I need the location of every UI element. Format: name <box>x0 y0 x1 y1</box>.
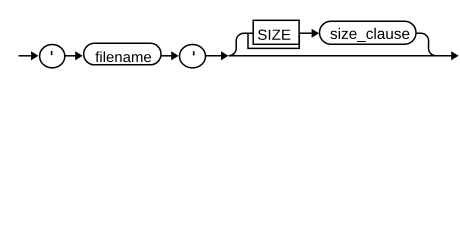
wire: branch down-curve back to main line <box>416 33 436 56</box>
quote tick (apostrophe) inside first circle <box>51 51 53 55</box>
wire: branch up-curve into SIZE rail <box>229 33 254 56</box>
arrowhead into second quote terminal <box>171 51 178 60</box>
railroad syntax diagram: 'filename' [ [SIZE] size_clause ] <box>0 0 460 78</box>
wire: circle1 to filename <box>65 55 76 57</box>
arrowhead at branch junction <box>221 51 228 60</box>
wire: filename to circle2 <box>161 55 172 57</box>
quote tick (apostrophe) inside second circle <box>193 51 195 55</box>
wire: inner bypass under SIZE keyword (SIZE optional) <box>248 33 299 48</box>
label: SIZE <box>258 30 290 40</box>
label: size_clause <box>330 28 409 42</box>
arrowhead into first quote terminal <box>31 51 38 60</box>
arrowhead into size_clause <box>312 29 319 38</box>
terminal circle: closing quote <box>180 45 206 68</box>
wire: circle2 to branch point <box>206 55 223 57</box>
wire: start segment <box>19 55 33 57</box>
keyword box: SIZE <box>253 20 299 44</box>
terminal circle: opening quote <box>40 45 65 68</box>
wire: main line bypass of optional SIZE group <box>229 55 453 57</box>
label: filename <box>95 51 151 62</box>
wire: SIZE to size_clause <box>299 32 313 34</box>
non-terminal oval: size_clause <box>320 21 417 44</box>
end arrowhead <box>451 51 458 60</box>
non-terminal oval: filename <box>84 43 161 65</box>
arrowhead into filename <box>75 51 82 60</box>
